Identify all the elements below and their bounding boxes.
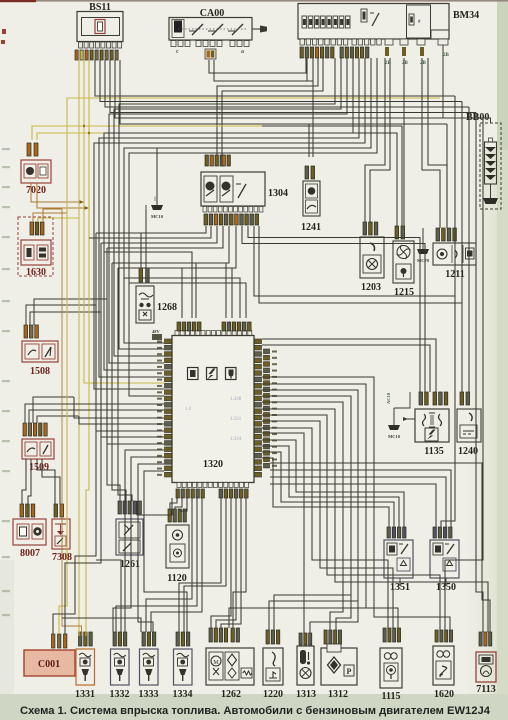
CA00 switch contact 1 xyxy=(192,24,203,35)
BM34 connector stub f xyxy=(438,39,448,45)
svg-text:1220: 1220 xyxy=(263,689,283,700)
1312 connector notch xyxy=(327,644,341,652)
connector strip under CA00 mid xyxy=(196,41,222,47)
junction dot y2 xyxy=(88,132,90,134)
sensor 1268 box xyxy=(136,286,154,323)
wire ECU bot 1120c xyxy=(180,498,187,511)
1203 icon hook xyxy=(370,243,375,251)
1331 nozzle icon xyxy=(82,669,90,675)
CA00 dotted travel line xyxy=(178,28,248,30)
wire tag pins above 1241 xyxy=(305,166,315,179)
wire BM34 1211b xyxy=(428,58,447,228)
BM34 relay switch symbol xyxy=(372,13,379,26)
wire tag pins above 1313 xyxy=(299,633,312,645)
CA00 inner contact block xyxy=(172,20,184,38)
injector 1331 box xyxy=(76,649,95,685)
wire tag pins above 1135 a xyxy=(419,392,428,405)
svg-text:a: a xyxy=(241,49,244,55)
svg-text:BM34: BM34 xyxy=(453,10,479,21)
svg-text:1509: 1509 xyxy=(29,462,49,473)
wire ECU top t2 xyxy=(112,263,226,318)
wire ECU left l4 xyxy=(79,416,164,424)
ECU 1320 right pin column outer xyxy=(264,349,270,468)
wire BM34 L1 xyxy=(119,58,335,349)
wire tag pins above 1215 xyxy=(395,226,405,239)
wire 1268 b xyxy=(145,210,147,268)
wire stair k6 xyxy=(262,415,440,630)
1508 icon pedal b xyxy=(42,344,55,359)
CA00 key symbol xyxy=(252,28,260,30)
wire stair k7 xyxy=(262,421,393,628)
svg-text:1630: 1630 xyxy=(26,267,46,278)
wire BM34 1215a xyxy=(403,58,405,226)
svg-text:1120: 1120 xyxy=(167,573,186,584)
wire 1304 q10 xyxy=(259,226,462,303)
connector strip under BS11 xyxy=(79,42,122,48)
wire BS11 d3 xyxy=(105,60,469,107)
7113 icon top xyxy=(479,655,493,664)
ground MC70 symbol xyxy=(417,249,429,254)
wire 1351 stub xyxy=(399,578,401,586)
wire stair k2 xyxy=(262,390,358,633)
wire 1220 f1 xyxy=(269,601,358,630)
svg-text:C001: C001 xyxy=(38,659,60,670)
1261 icon top xyxy=(119,522,140,538)
battery ground symbol xyxy=(483,198,498,204)
wire 1304 q4 xyxy=(107,226,223,248)
wire stair k13 xyxy=(262,458,389,527)
wire 1262 f1 xyxy=(229,608,366,628)
1220 icon hook xyxy=(272,652,275,666)
diag socket 1630 box xyxy=(21,240,51,265)
wire tag pins above 7308 xyxy=(54,504,64,517)
7308 icon box xyxy=(55,536,66,546)
switch 1508 box xyxy=(22,341,58,362)
1334 coil icon xyxy=(177,653,189,657)
wire 1508 a xyxy=(26,305,96,325)
wire tag pins above 1350 xyxy=(433,527,452,538)
svg-text:1135: 1135 xyxy=(424,446,443,457)
wire ECU top t4 xyxy=(124,278,240,318)
relay 1351 box xyxy=(384,540,413,578)
wire left yellow long xyxy=(59,98,440,634)
svg-text:MC70: MC70 xyxy=(417,258,430,263)
svg-text:1262: 1262 xyxy=(221,689,241,700)
sensor 1620 box xyxy=(433,646,454,685)
wire BM34 L2 xyxy=(114,58,341,356)
wire tag pins above 1211 xyxy=(436,228,456,241)
faint margin wire labels xyxy=(2,148,10,616)
1313 icon magnet xyxy=(300,650,306,664)
wire 1268 top src xyxy=(145,205,147,210)
svg-text:||: || xyxy=(154,197,156,202)
wire tag pins above 1220 xyxy=(266,630,280,644)
1135 left terminal xyxy=(406,418,415,420)
connector strip under CA00 left xyxy=(171,41,190,47)
1120 icon b xyxy=(170,544,185,562)
sensor 1220 box xyxy=(263,648,283,685)
wire 7020 down a xyxy=(31,183,82,202)
svg-text:1261: 1261 xyxy=(120,559,140,570)
wire ECU bot 1262c xyxy=(221,498,241,628)
1215 icon lower xyxy=(396,264,411,279)
1332 nozzle icon xyxy=(116,669,124,675)
wire 1509 bot s1 xyxy=(22,459,26,504)
unit 7308 box xyxy=(52,519,70,549)
wire yellow row1 xyxy=(32,126,262,140)
svg-text:1331: 1331 xyxy=(75,689,95,700)
wire tag pins above 1304 a xyxy=(205,155,223,166)
fuse box BM34 outer box xyxy=(298,4,449,40)
svg-text:1304: 1304 xyxy=(268,188,288,199)
lambda 1120 box xyxy=(166,525,189,568)
svg-text:2B: 2B xyxy=(443,53,450,58)
1304 contact c xyxy=(238,184,246,198)
1262 icon motor xyxy=(209,652,223,680)
wire bottom h1 xyxy=(96,560,121,632)
bottom left pale band xyxy=(0,560,14,694)
svg-text:2B: 2B xyxy=(402,61,409,66)
svg-text:48V: 48V xyxy=(152,329,161,334)
8007 icon square xyxy=(17,524,29,539)
svg-text:1241: 1241 xyxy=(301,222,321,233)
svg-text:1312: 1312 xyxy=(328,689,348,700)
wire ECU left l9 xyxy=(113,457,164,632)
sensor 1115 box xyxy=(380,648,402,688)
1630 icon a xyxy=(24,245,34,260)
wire ECU right top1 xyxy=(262,345,430,392)
wire ECU top t3 xyxy=(118,268,232,318)
unit 1262 box xyxy=(206,648,254,685)
1268 icon top xyxy=(139,293,153,297)
switch unit 7020 outer box xyxy=(21,160,51,183)
1203 icon motor xyxy=(363,255,381,273)
1334 nozzle icon xyxy=(179,669,187,675)
wire ECU left l3 xyxy=(74,397,164,418)
wire ECU right u3 xyxy=(270,477,446,527)
svg-text:1.334: 1.334 xyxy=(230,437,242,442)
wire tag pins above 1240 xyxy=(460,392,470,405)
svg-text:1313: 1313 xyxy=(296,689,316,700)
wire tag pins above 8007 xyxy=(20,504,35,517)
wire ECU bot 1332a xyxy=(116,498,197,632)
svg-text:P: P xyxy=(347,667,352,676)
wire battery to ground xyxy=(490,184,492,198)
unit 8007 box xyxy=(13,519,46,545)
wire BM34 1203a xyxy=(365,58,385,222)
wire 1630 up b xyxy=(38,218,79,222)
wire right v1 xyxy=(441,96,455,527)
sensor 1313 box xyxy=(297,646,314,685)
wire stair k0 xyxy=(262,377,450,631)
wire tag pins above 7113 xyxy=(479,632,492,646)
ECU left pin tiny labels xyxy=(157,341,162,476)
wire tag pins BM34 left xyxy=(300,47,334,58)
1241 icon bottom xyxy=(306,200,318,213)
CA00 small connector 1052 xyxy=(205,49,216,59)
svg-text:2B: 2B xyxy=(420,61,427,66)
wire BM34 L6 xyxy=(94,58,365,389)
ECU top pins group2 xyxy=(222,322,251,331)
battery BB00 cells xyxy=(485,142,497,184)
wire 1630 up a xyxy=(33,213,67,222)
BM34 lower right notch xyxy=(431,30,449,39)
1240 icon lower xyxy=(460,425,477,438)
1268 icon bottom xyxy=(139,310,151,320)
BM34 right sub box xyxy=(407,5,431,38)
wire tag pins above 7020 xyxy=(27,143,38,156)
1620 icon top xyxy=(437,651,443,657)
BM34 sub fuse xyxy=(409,14,414,25)
wire 1304 q5 xyxy=(196,226,229,318)
wire leftmid v5 xyxy=(118,268,132,501)
1350 sub icon xyxy=(443,558,456,571)
wire BS11 d6 xyxy=(120,60,447,124)
wire tag pins above 1351 xyxy=(387,527,406,538)
wire tag pins above 1261 xyxy=(118,501,141,514)
wire 1304 top a xyxy=(217,58,318,155)
wire tag pins under 1304 xyxy=(204,214,259,225)
injector 1334 box xyxy=(174,649,193,685)
wire 1304 q9 xyxy=(254,226,455,296)
wire ECU left l7 xyxy=(107,299,164,444)
wire BM34 1203b xyxy=(370,58,390,222)
top red mark xyxy=(0,0,36,2)
relay unit BS11 outer box xyxy=(77,12,123,42)
wire 1304 q8 xyxy=(248,226,420,392)
wire tag pins above 1331 xyxy=(79,632,93,646)
CA00 switch contact 3 xyxy=(232,24,243,35)
connector strip under CA00 right xyxy=(230,41,249,47)
1240 icon hook xyxy=(469,413,472,421)
1351 contact xyxy=(401,544,408,554)
wire ECU bot 1334a xyxy=(179,498,221,632)
wire leftmid v1 xyxy=(53,233,96,634)
diag socket 1630 dashed box xyxy=(18,217,53,276)
1351 sub icon xyxy=(397,558,410,571)
svg-text:1.0: 1.0 xyxy=(185,407,192,412)
right edge scan shading xyxy=(497,0,508,720)
wire tag pins above 1333 xyxy=(142,632,156,646)
wire tag pins above 1120 xyxy=(168,509,186,522)
wire 7020 down b xyxy=(37,183,87,208)
wire 1509 bot s4 xyxy=(42,459,60,504)
wire tag pins BS11 xyxy=(75,50,118,60)
ECU bottom pins group1 xyxy=(176,489,204,498)
wire stair k3 xyxy=(262,396,351,630)
ECU right pin tiny labels xyxy=(272,351,277,467)
wire 1509 c xyxy=(33,397,74,423)
wire tag pins above 1304 b xyxy=(222,155,230,166)
wire tag pins above 1262 a xyxy=(209,628,228,642)
1211 icon b xyxy=(455,250,457,258)
1211 icon a xyxy=(437,249,447,259)
wire ECU bot 1120b xyxy=(175,498,182,509)
wire ECU bot 1262d xyxy=(233,498,246,628)
switch 1509 box xyxy=(22,439,54,459)
1220 icon lower xyxy=(266,668,280,681)
right edge scan shading2 xyxy=(462,150,508,720)
wire 1304 q6 xyxy=(182,226,236,318)
1312 icon diamond xyxy=(328,657,341,673)
wire BS11 d1 xyxy=(95,60,455,96)
ground MC10 mid symbol xyxy=(388,425,400,430)
ground MC10 left symbol xyxy=(151,205,163,210)
wire yellow row2 cont xyxy=(262,133,397,226)
svg-text:AC10: AC10 xyxy=(386,392,391,404)
wire ECU left l6 xyxy=(101,312,164,437)
1332 coil icon xyxy=(114,653,126,657)
svg-text:Схема 1. Система впрыска топли: Схема 1. Система впрыска топлива. Автомо… xyxy=(20,705,491,717)
1262 icon diamond xyxy=(225,652,239,680)
ignition switch CA00 box xyxy=(169,18,252,41)
unit 1241 box xyxy=(303,181,320,216)
7308 icon top xyxy=(55,523,66,525)
unit 7113 box xyxy=(476,652,496,682)
wire 1304 q2 xyxy=(89,226,211,238)
wire 1508 b xyxy=(30,312,101,325)
relay unit BS11 relay icon xyxy=(95,20,105,34)
1620 icon lower xyxy=(436,661,451,679)
wire ECU left l11 xyxy=(144,471,187,632)
wire tag pins above 1312 xyxy=(324,630,342,644)
wire 1135 left tag xyxy=(394,392,410,408)
ECU 1320 main box xyxy=(172,336,254,483)
battery BB00 terminal xyxy=(489,138,493,142)
wire ECU left l10 xyxy=(138,464,164,632)
BM34 connector stub c xyxy=(385,39,393,45)
1350 coil xyxy=(433,543,443,555)
wire ECU top t1 xyxy=(104,252,192,318)
wire yellow row1 cont xyxy=(262,126,402,226)
wire BS11 yellow a xyxy=(78,60,80,636)
injector 1332 box xyxy=(111,649,130,685)
wire 1509 bot s3 xyxy=(37,459,55,504)
wire CA00 BM34 link1 xyxy=(209,58,306,73)
ECU bottom pins group2 xyxy=(219,489,248,498)
wire right v6 xyxy=(446,124,448,228)
wire tag pins BM34 mid xyxy=(340,47,369,58)
wire 1261 feed4 xyxy=(137,498,172,515)
wire ECU left l2 xyxy=(68,409,164,411)
wire tag pins above C001 xyxy=(52,634,67,648)
wire right v2 xyxy=(461,102,463,393)
wire right v5 xyxy=(445,118,483,630)
svg-text:7113: 7113 xyxy=(476,684,495,695)
BM34 fuse F1 vertical xyxy=(361,9,367,22)
relay 1350 box xyxy=(430,540,459,578)
wire right v3 xyxy=(468,107,470,392)
wire stair k1 xyxy=(262,384,398,628)
1312 icon P box xyxy=(344,665,354,676)
1630 icon b xyxy=(37,245,48,260)
wire tag pins above 1334 xyxy=(176,632,190,646)
svg-text:1115: 1115 xyxy=(382,691,401,702)
wire ECU left l5 xyxy=(96,305,164,431)
wire ECU bot 1262b xyxy=(216,498,236,628)
svg-text:7020: 7020 xyxy=(26,185,46,196)
wire BS11 d2 xyxy=(100,60,462,102)
wire stair k12 xyxy=(262,452,394,527)
double relay 1304 box xyxy=(201,172,265,206)
ignition coil 1135 box xyxy=(415,409,449,442)
BM34 connector stub e xyxy=(417,39,425,45)
wire 1509 bot s2 xyxy=(28,459,31,504)
wire BM34 L8 xyxy=(129,58,377,396)
1211 icon c xyxy=(466,248,475,259)
wire 1304 q1 xyxy=(96,226,206,233)
wire ECU right u2 xyxy=(270,470,451,527)
1135 coil windings xyxy=(423,414,442,426)
wire 1509 a xyxy=(25,404,62,423)
wire 1508 c xyxy=(34,299,107,325)
svg-text:1.330: 1.330 xyxy=(230,397,242,402)
switch unit 7020 inner icon b xyxy=(38,164,48,178)
svg-text:MC10: MC10 xyxy=(151,214,164,219)
wire 1220 f2 xyxy=(274,595,351,630)
wire ECU left l1 xyxy=(62,403,164,405)
throttle unit 1261 box xyxy=(116,519,143,555)
wire BM34 1241b xyxy=(308,124,310,157)
svg-text:1508: 1508 xyxy=(30,366,50,377)
ground MC10 mid wire xyxy=(393,408,395,425)
wire ECU right top2 xyxy=(262,339,436,392)
wire tag pins above 1332 xyxy=(113,632,127,646)
wire stair k10 xyxy=(262,440,404,527)
connector strip under BM34 b xyxy=(352,39,381,45)
svg-text:1333: 1333 xyxy=(139,689,159,700)
ECU 48V tag xyxy=(152,334,162,340)
wire 1304 top b xyxy=(222,58,323,155)
1333 coil icon xyxy=(143,653,155,657)
svg-text:M: M xyxy=(213,660,219,666)
ECU 1320 right pin column inner xyxy=(255,339,262,477)
1115 icon lower xyxy=(384,663,398,681)
wire tag pins above 1630 xyxy=(30,222,44,235)
left edge red dot2 xyxy=(1,40,5,44)
wire ECU top t5 xyxy=(129,283,246,318)
wire BS11 yellow b xyxy=(84,60,164,383)
wire stair k8 xyxy=(262,428,388,628)
wire ECU left l8 xyxy=(125,450,164,632)
switch unit 7020 inner icon a xyxy=(24,164,36,178)
BM34 fuse row xyxy=(302,16,350,28)
wire 1268 a xyxy=(140,233,142,268)
sensor 1312 box xyxy=(321,648,357,685)
wire tag 2B e xyxy=(402,47,406,56)
svg-text:8007: 8007 xyxy=(20,548,40,559)
1509 icon a xyxy=(25,442,37,456)
bottom scan band xyxy=(0,694,508,720)
connector C001 box xyxy=(24,650,75,676)
ECU icon box 2 xyxy=(207,368,218,380)
1135 spark icon xyxy=(425,428,438,441)
1115 icon top xyxy=(384,653,390,659)
1120 icon a xyxy=(173,530,183,540)
unit 1211 box xyxy=(433,243,476,265)
left edge red dot1 xyxy=(2,29,6,34)
wire stair k11 xyxy=(262,446,399,527)
wire BM34 L4 xyxy=(104,58,353,370)
1262 icon resistor xyxy=(241,668,252,678)
1261 icon bottom xyxy=(119,540,140,553)
ECU icon box 1 xyxy=(188,368,199,380)
svg-text:1332: 1332 xyxy=(110,689,130,700)
wire right v4 xyxy=(476,113,483,633)
junction dot y1 xyxy=(83,125,85,127)
wire tag 2B f xyxy=(420,47,424,56)
wire stair k5 xyxy=(262,409,488,632)
